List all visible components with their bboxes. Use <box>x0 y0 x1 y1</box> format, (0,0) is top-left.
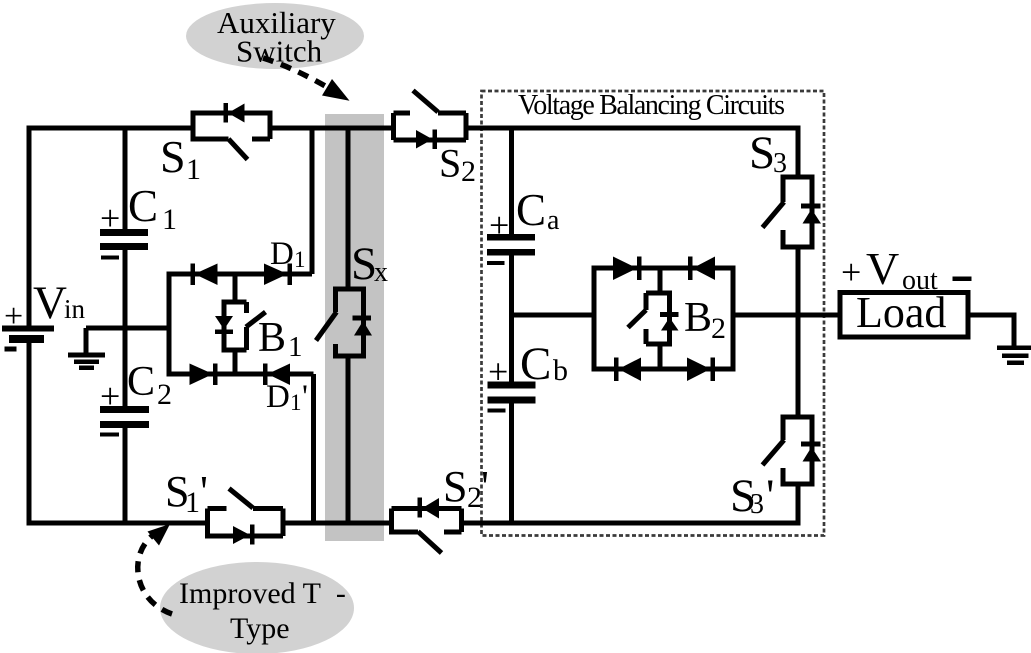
svg-text:1: 1 <box>288 331 303 363</box>
svg-text:2: 2 <box>461 155 476 188</box>
svg-text:S: S <box>439 141 461 186</box>
svg-text:2: 2 <box>711 312 726 345</box>
svg-text:+: + <box>489 205 509 245</box>
svg-text:V: V <box>866 243 899 294</box>
svg-text:2: 2 <box>467 481 482 514</box>
svg-text:Type: Type <box>230 612 290 645</box>
svg-text:+: + <box>100 376 120 416</box>
svg-text:1: 1 <box>185 486 200 519</box>
svg-text:1: 1 <box>186 153 201 186</box>
svg-text:2: 2 <box>157 378 172 411</box>
svg-text:B: B <box>258 315 286 361</box>
svg-text:V: V <box>33 277 67 329</box>
svg-text:Switch: Switch <box>236 34 323 69</box>
svg-text:in: in <box>64 294 86 324</box>
svg-text:x: x <box>374 257 388 288</box>
svg-text:D: D <box>270 236 294 272</box>
svg-text:': ' <box>302 379 308 415</box>
svg-text:a: a <box>547 205 560 236</box>
svg-text:S: S <box>160 131 186 182</box>
svg-text:C: C <box>516 185 546 235</box>
svg-text:+: + <box>841 252 861 292</box>
svg-text:Voltage Balancing Circuits: Voltage Balancing Circuits <box>518 90 785 121</box>
svg-text:': ' <box>200 467 208 516</box>
svg-text:S: S <box>749 127 775 179</box>
svg-text:C: C <box>520 338 551 390</box>
svg-text:+: + <box>488 352 508 392</box>
svg-text:+: + <box>4 298 23 335</box>
svg-text:Improved T -: Improved T - <box>179 577 346 610</box>
svg-text:1: 1 <box>162 203 177 236</box>
svg-text:+: + <box>100 198 120 238</box>
svg-text:b: b <box>553 354 568 387</box>
svg-text:C: C <box>127 359 155 405</box>
svg-text:3: 3 <box>773 148 787 179</box>
svg-text:S: S <box>443 462 467 511</box>
svg-text:out: out <box>902 265 938 296</box>
svg-text:D: D <box>266 379 290 415</box>
svg-text:1: 1 <box>290 390 302 415</box>
svg-text:C: C <box>128 181 158 231</box>
svg-text:3: 3 <box>750 489 764 520</box>
svg-text:1: 1 <box>294 247 306 272</box>
svg-text:': ' <box>481 462 489 511</box>
svg-text:B: B <box>684 295 712 341</box>
svg-text:': ' <box>766 470 774 522</box>
